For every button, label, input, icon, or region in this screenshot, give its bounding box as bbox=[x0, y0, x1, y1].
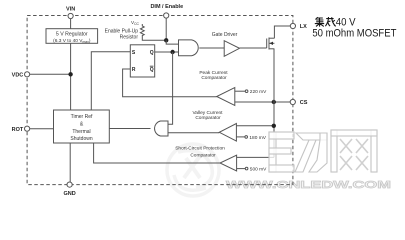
svg-text:Q: Q bbox=[150, 50, 154, 56]
terminal GND bbox=[67, 182, 72, 187]
svg-text:Q: Q bbox=[150, 67, 154, 73]
wire SCP output to timer box bottom bbox=[94, 143, 220, 163]
svg-text:Short-Circuit Protection: Short-Circuit Protection bbox=[175, 146, 225, 152]
svg-text:CS: CS bbox=[300, 100, 308, 106]
watermark swirl logo bbox=[167, 144, 219, 196]
node valley junction bbox=[272, 124, 276, 128]
terminal DIM/Enable bbox=[164, 13, 169, 18]
wire lower AND output to timer box bbox=[109, 128, 150, 130]
wire MOSFET source rail down bbox=[273, 49, 275, 158]
svg-text:50 mOhm MOSFET: 50 mOhm MOSFET bbox=[312, 28, 396, 40]
terminal LX bbox=[290, 23, 295, 28]
watermark big glyph 1 (巨) bbox=[269, 132, 294, 172]
svg-text:Comparator: Comparator bbox=[195, 115, 221, 121]
dashed boundary box bbox=[27, 16, 293, 185]
svg-text:Comparator: Comparator bbox=[190, 153, 216, 159]
5V regulator box U1 bbox=[46, 29, 98, 44]
svg-text:5 V Regulator: 5 V Regulator bbox=[56, 32, 88, 38]
wire 5V regulator to VDC junction to timer box bbox=[70, 43, 72, 110]
and gate U9 (mirrored) bbox=[155, 121, 168, 136]
wire CS terminal bbox=[274, 101, 291, 103]
svg-text:Gate Driver: Gate Driver bbox=[212, 32, 238, 38]
svg-text:180 mV: 180 mV bbox=[249, 135, 266, 141]
wire VIN down to 5V regulator bbox=[70, 18, 72, 29]
svg-text:VIN: VIN bbox=[66, 6, 75, 12]
wire DIM/Enable down bbox=[165, 18, 167, 40]
wire valley comparator output to lower AND bbox=[168, 132, 219, 134]
wire peak comparator lower input to CS rail bbox=[235, 101, 274, 103]
wire latch S from timer box bbox=[91, 52, 130, 110]
node CS junction bbox=[272, 100, 276, 104]
terminal VIN bbox=[68, 13, 73, 18]
transistor Q1 power MOSFET bbox=[266, 39, 268, 49]
svg-text:500 mV: 500 mV bbox=[250, 167, 267, 173]
node DIM junction bbox=[164, 38, 168, 42]
svg-text:DIM / Enable: DIM / Enable bbox=[150, 4, 183, 10]
wire VDC terminal bbox=[30, 73, 71, 75]
wire LX to MOSFET drain bbox=[274, 26, 290, 38]
timer and thermal shutdown block U8 bbox=[54, 110, 110, 143]
wire AND output to gate driver bbox=[199, 47, 224, 49]
svg-text:Resistor: Resistor bbox=[120, 34, 139, 40]
wire latch Q to AND input B bbox=[155, 51, 179, 53]
node VDC junction bbox=[68, 72, 72, 76]
watermark big glyph 3 (网) bbox=[331, 130, 377, 172]
wire resistor bottom to junction bbox=[142, 38, 166, 41]
watermark big glyph 2 (刀) bbox=[295, 133, 327, 172]
svg-text:VDC: VDC bbox=[12, 73, 24, 79]
svg-text:R: R bbox=[132, 67, 136, 73]
terminal ROT bbox=[25, 126, 30, 131]
label 集成40 V (integrated 40 V) bbox=[315, 17, 336, 27]
terminal CS bbox=[290, 99, 295, 104]
svg-text:Comparator: Comparator bbox=[201, 75, 227, 81]
wire gate driver to MOSFET gate bbox=[240, 47, 267, 49]
svg-text:Timer Ref: Timer Ref bbox=[71, 114, 93, 120]
svg-text:220 mV: 220 mV bbox=[250, 89, 267, 95]
and gate U3 bbox=[179, 40, 199, 56]
terminal VDC bbox=[25, 72, 30, 77]
wire Q junction down to lower AND gate bbox=[168, 52, 173, 124]
wire junction to AND input A bbox=[166, 40, 178, 44]
svg-text:LX: LX bbox=[300, 24, 307, 30]
svg-text:Shutdown: Shutdown bbox=[70, 136, 92, 142]
svg-text:ROT: ROT bbox=[12, 127, 24, 133]
wire latch R from peak comparator bbox=[123, 69, 217, 97]
wire rail to SCP comparator upper input bbox=[237, 156, 274, 158]
wire valley comparator upper input bbox=[236, 125, 273, 127]
svg-text:Thermal: Thermal bbox=[72, 129, 90, 135]
latch U2 (SR latch) bbox=[130, 45, 154, 77]
node Q junction bbox=[170, 50, 174, 54]
svg-text:GND: GND bbox=[63, 191, 75, 197]
wire ROT terminal to timer box bbox=[30, 128, 54, 130]
wire timer box to GND bbox=[69, 143, 71, 182]
